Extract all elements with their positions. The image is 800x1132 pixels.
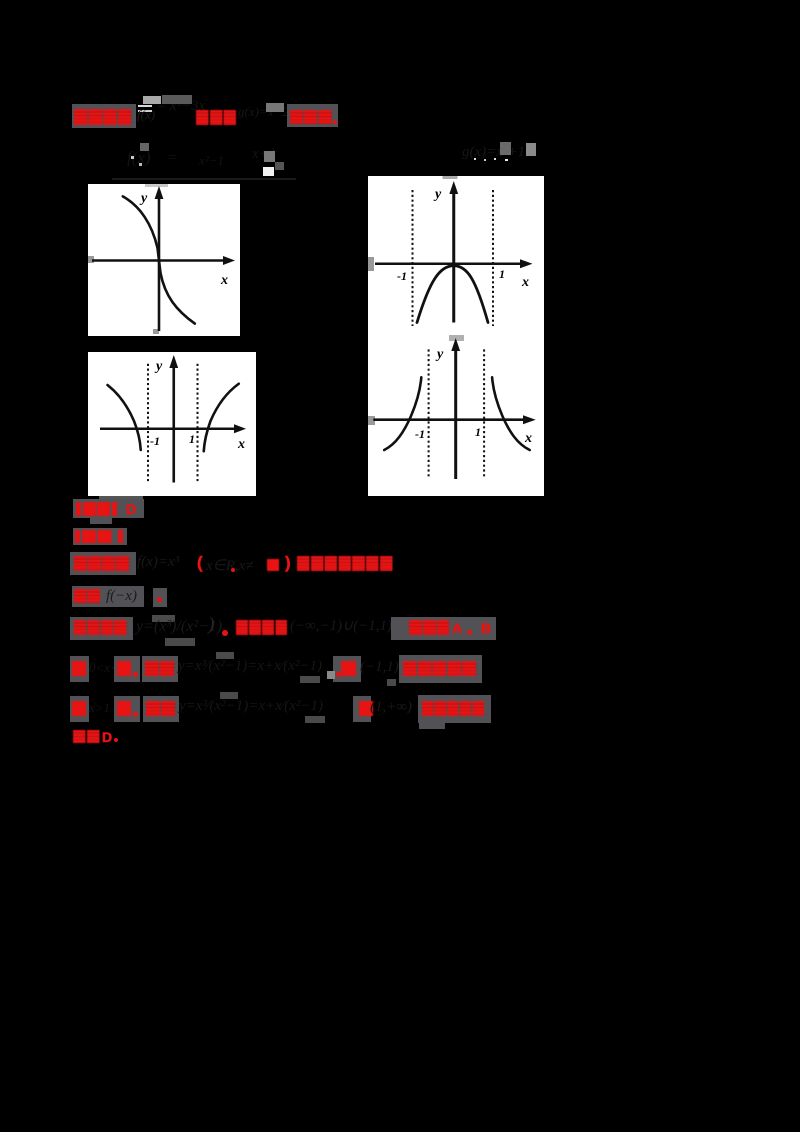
red run: 定义域为 xyxy=(236,620,288,635)
svg-text:-1: -1 xyxy=(150,434,160,448)
y axis xyxy=(172,364,175,483)
dark long formula with fraction xyxy=(178,658,322,675)
red text run 1 (4 CJK chars) xyxy=(74,109,132,125)
red 在 xyxy=(353,696,371,722)
graph D : right branch xyxy=(492,377,530,450)
right branch xyxy=(204,384,239,452)
formula 2 (dark) xyxy=(238,104,298,120)
dark: x>1 xyxy=(89,700,110,716)
red ，在 xyxy=(333,656,361,682)
red: 当 xyxy=(72,661,86,676)
gray artifact bar under panel C xyxy=(99,496,143,500)
dotted asymptote x=1 xyxy=(197,364,199,483)
red: 当 xyxy=(72,701,86,716)
graph D : y axis xyxy=(454,346,457,479)
red text run 2 (3 CJK chars) xyxy=(196,110,236,125)
formula cluster 1 xyxy=(127,148,151,168)
dark formula (−1,1) xyxy=(290,616,392,635)
graph B : dotted asymptote x=-1 xyxy=(412,190,414,326)
svg-text:y: y xyxy=(139,191,148,206)
graph D : dotted asymptote x=1 xyxy=(483,349,485,478)
graph B : y axis xyxy=(452,190,455,323)
red run: 在R上为增函数， xyxy=(297,556,393,571)
graph D : dotted asymptote x=-1 xyxy=(428,349,430,478)
left branch xyxy=(108,385,141,450)
svg-text:1: 1 xyxy=(499,267,505,281)
dark formula f(x)= xyxy=(137,554,179,571)
red open paren xyxy=(197,553,203,573)
y axis xyxy=(158,196,161,331)
scan artifacts xyxy=(368,257,374,271)
x axis xyxy=(92,259,226,261)
red close paren + comma xyxy=(208,614,214,636)
dark long formula xyxy=(179,698,323,715)
highlight box behind red run 1 xyxy=(72,104,136,128)
dark: 0<x<1 xyxy=(89,660,125,676)
red: 因为函数 xyxy=(74,620,127,635)
right-hand formula group of line 2 xyxy=(462,144,525,161)
svg-text:x: x xyxy=(220,273,228,288)
formula cluster 4 xyxy=(252,146,276,163)
svg-text:y: y xyxy=(433,187,442,202)
highlight box + red text run 3 xyxy=(287,104,338,127)
svg-text:x: x xyxy=(237,437,245,452)
x axis xyxy=(100,428,237,430)
graph B : downward parabola xyxy=(417,266,488,323)
curve (decreasing cube-root style) xyxy=(123,196,195,323)
graph D : left branch xyxy=(384,377,421,450)
gray + red: 上单调递减， xyxy=(418,695,491,723)
dark formula on gray xyxy=(104,586,144,607)
svg-text:1: 1 xyxy=(189,432,195,446)
dark tall formula xyxy=(152,615,175,622)
dark (1,+∞) xyxy=(370,699,412,716)
graph D : x axis xyxy=(373,418,526,421)
red period on gray box xyxy=(153,588,167,607)
faint underline artifact xyxy=(112,178,296,180)
svg-text:x: x xyxy=(521,275,529,290)
gray box + red: 排除A、B xyxy=(391,617,496,640)
red comma xyxy=(396,631,401,636)
red: 排除 (2 chars) xyxy=(74,589,100,603)
red close paren xyxy=(285,553,291,573)
red: 因为函数 xyxy=(74,556,130,571)
formula cluster 3 xyxy=(199,153,224,169)
scan artifacts xyxy=(88,256,94,263)
gray + red: 函数 xyxy=(142,656,178,682)
svg-text:1: 1 xyxy=(475,425,481,439)
gray + red: 时， xyxy=(114,656,140,682)
formula cluster 2 xyxy=(167,150,177,167)
dark interior xyxy=(206,556,254,575)
dotted asymptote x=-1 xyxy=(147,364,149,483)
svg-text:y: y xyxy=(154,359,163,374)
line 6 scan artifacts xyxy=(327,671,335,679)
svg-text:y: y xyxy=(435,347,444,362)
gray + red: 函数 xyxy=(143,696,179,722)
svg-text:-1: -1 xyxy=(397,269,407,283)
graph B : dotted asymptote x=1 xyxy=(492,190,494,326)
graph B : x axis xyxy=(375,262,523,265)
dark (−1,1) xyxy=(360,659,399,676)
svg-text:-1: -1 xyxy=(415,427,425,441)
gray + red: 时， xyxy=(114,696,140,722)
formula 1 inverted gray patches xyxy=(143,96,161,104)
svg-text:x: x xyxy=(524,431,532,446)
formula 1 (dark, partially inverted) xyxy=(156,98,205,115)
gray + red: 上单调递增， xyxy=(399,655,482,683)
